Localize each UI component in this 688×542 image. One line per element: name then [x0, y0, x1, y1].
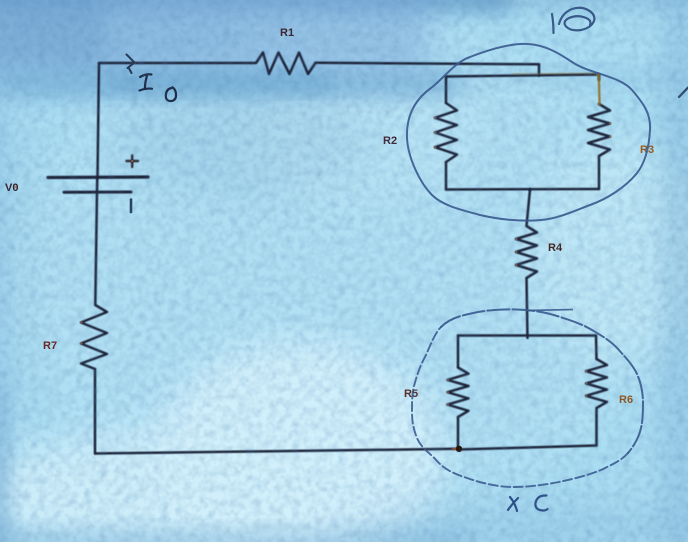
pen dot on current arrow	[134, 62, 136, 64]
wire: R5 to bottom rail	[457, 417, 460, 450]
pen dash at R5R6 junction	[452, 448, 456, 450]
wire: stem from R2R3 down to R4	[527, 190, 531, 227]
wire: right drop to R3	[598, 75, 601, 81]
junction node at lower-left of R5R6	[456, 446, 462, 452]
hand-drawn loop around R5R6 (lower dotted arc)	[412, 327, 628, 487]
hand-drawn loop around R5R6 (upper arc)	[441, 309, 643, 453]
wire: long bottom return	[95, 449, 458, 454]
wire: drop into parallel block	[538, 64, 541, 76]
wire: top of R5R6 block	[458, 334, 596, 337]
orange overdrawn wire on top-right of R2R3	[512, 73, 600, 104]
battery plate +	[48, 175, 148, 179]
handwritten xC mark below lower loop	[508, 495, 548, 511]
resistor R3	[588, 104, 610, 156]
minus sign of source	[130, 200, 133, 213]
wire: R1 to node above R2R3	[316, 63, 540, 65]
resistor R2	[435, 103, 457, 162]
stray pen mark right edge	[679, 88, 688, 98]
resistor R4	[516, 226, 537, 278]
wire: bottom of R2R3 block	[446, 188, 599, 191]
wire: battery minus down to R7	[95, 192, 97, 305]
battery plate -	[64, 191, 131, 194]
wire: top of R2R3 block	[446, 75, 599, 77]
battery V0 plates	[48, 177, 148, 192]
pen dot on plus centre	[131, 160, 133, 162]
wire: top horizontal to R1	[99, 62, 251, 65]
resistor R5	[448, 368, 469, 418]
handwritten I0 current label	[140, 74, 177, 101]
wire: R3 to bottom rail	[598, 156, 601, 189]
resistor R7	[81, 305, 107, 369]
wire: R4 to lower block	[527, 278, 528, 338]
wire: left drop to R5	[457, 336, 460, 368]
chromatic specks on resistor vertices	[81, 117, 612, 406]
wire: R6 to bottom rail	[595, 416, 598, 446]
resistor R6	[586, 359, 607, 416]
hand-drawn loop around R2R3	[407, 44, 650, 221]
current arrow on top wire	[127, 55, 135, 74]
pen dot on V0 label	[15, 186, 17, 188]
wire: left drop to R2	[445, 77, 448, 104]
extra pen stroke on loop top	[527, 310, 573, 311]
wire: battery internal stub	[96, 177, 99, 192]
resistor R1	[251, 53, 316, 75]
wire: R7 down to bottom-left corner	[94, 369, 97, 454]
wire: top-left vertical (source to top node)	[98, 63, 100, 177]
junction: R4 stem on R2R3 bottom rail	[528, 188, 532, 192]
wire: bottom of R5R6 block	[458, 446, 597, 450]
pen doodle top-right	[552, 8, 594, 33]
wire: right drop to R6	[595, 336, 598, 360]
plus sign of source	[127, 156, 139, 168]
wire: R2 to bottom rail	[445, 162, 448, 190]
